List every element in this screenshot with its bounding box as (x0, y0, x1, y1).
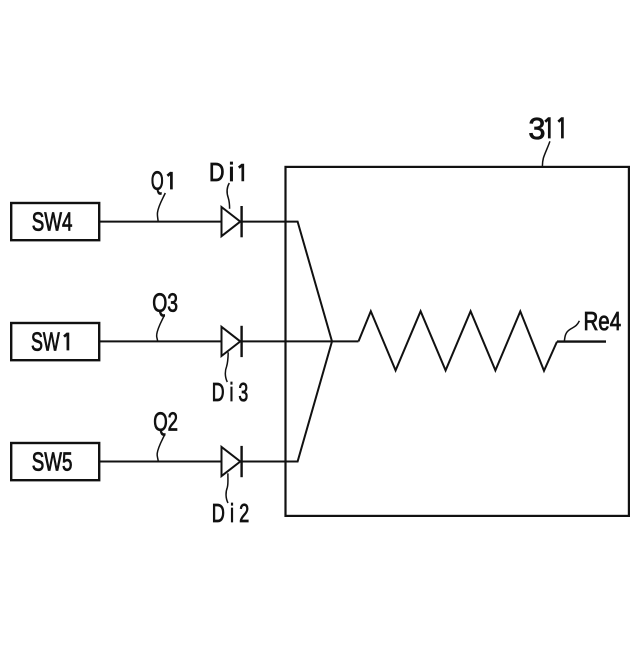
svg-text:D i 3: D i 3 (212, 379, 248, 407)
label Q1 (151, 167, 172, 195)
svg-text:Q: Q (151, 167, 164, 195)
svg-text:D i 2: D i 2 (212, 500, 249, 528)
box 311 (resistor block) (286, 167, 629, 516)
box SW4 (11, 203, 99, 240)
svg-text:Re4: Re4 (584, 308, 622, 336)
leader Di3 (225, 352, 228, 382)
resistor Re4 (zigzag) (359, 311, 558, 371)
leader Q3 (157, 315, 165, 341)
label 311 (528, 111, 562, 146)
diode Di3 (222, 326, 242, 357)
leader Q2 (157, 434, 165, 461)
label Di1 (209, 159, 243, 187)
svg-text:SW5: SW5 (32, 449, 73, 477)
svg-text:3: 3 (528, 111, 545, 146)
leader Di2 (226, 473, 228, 503)
box SW5 (11, 443, 99, 480)
diode Di2 (222, 446, 242, 477)
wire W1 (SW4 to junction) (99, 222, 332, 342)
svg-text:i: i (229, 159, 235, 187)
svg-text:Q2: Q2 (153, 409, 178, 437)
svg-text:SW4: SW4 (32, 209, 73, 237)
wire W4 (resistor to Re4 terminal) (557, 340, 606, 342)
leader 311 (542, 141, 550, 166)
box SW1 (11, 323, 99, 360)
leader Di1 (227, 183, 229, 209)
leader Re4 (564, 321, 579, 341)
label SW1 (31, 329, 68, 357)
svg-text:SW: SW (31, 329, 60, 357)
leader Q1 (157, 193, 165, 221)
diode Di1 (222, 206, 242, 237)
wire W2 (SW1 through junction to resistor) (99, 340, 358, 342)
wire W3 (SW5 to junction) (99, 341, 332, 461)
svg-text:D: D (209, 159, 225, 187)
svg-text:Q3: Q3 (152, 290, 178, 318)
